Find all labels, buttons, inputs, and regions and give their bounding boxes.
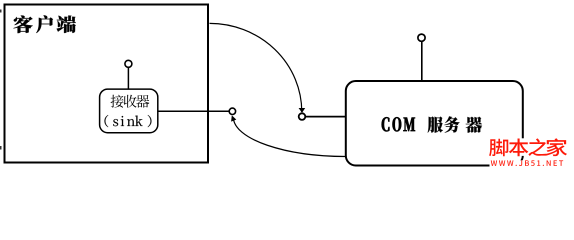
sink label 接收器 <box>111 95 150 108</box>
sink interface wire <box>158 110 229 112</box>
sink box <box>100 89 158 133</box>
label COM 服务器 (COM server) <box>382 117 415 131</box>
COM server box <box>346 81 523 166</box>
arrowhead at sink circle <box>231 115 236 121</box>
watermark background cover strip 2 <box>490 160 574 174</box>
server lollipop stem wire <box>421 41 423 81</box>
server lollipop circle <box>418 34 425 41</box>
sink lollipop stem wire <box>127 68 129 90</box>
sink label （sink） <box>105 115 152 127</box>
arrowhead at server circle <box>299 108 306 113</box>
left edge artifact bottom <box>0 146 2 150</box>
sink interface circle <box>229 108 235 114</box>
left edge artifact top <box>0 10 2 13</box>
sink lollipop circle <box>125 60 132 67</box>
watermark 脚本之家 <box>489 138 567 156</box>
watermark WWW.JB51.NET <box>491 160 563 166</box>
server interface circle <box>299 113 306 120</box>
client box 客户端 <box>5 5 209 163</box>
watermark background cover strip 1 <box>489 138 574 156</box>
connection curve client to server <box>210 23 302 112</box>
label 客户端 (client) <box>13 15 75 33</box>
server interface wire <box>306 116 345 118</box>
connection curve server to sink <box>233 118 345 156</box>
